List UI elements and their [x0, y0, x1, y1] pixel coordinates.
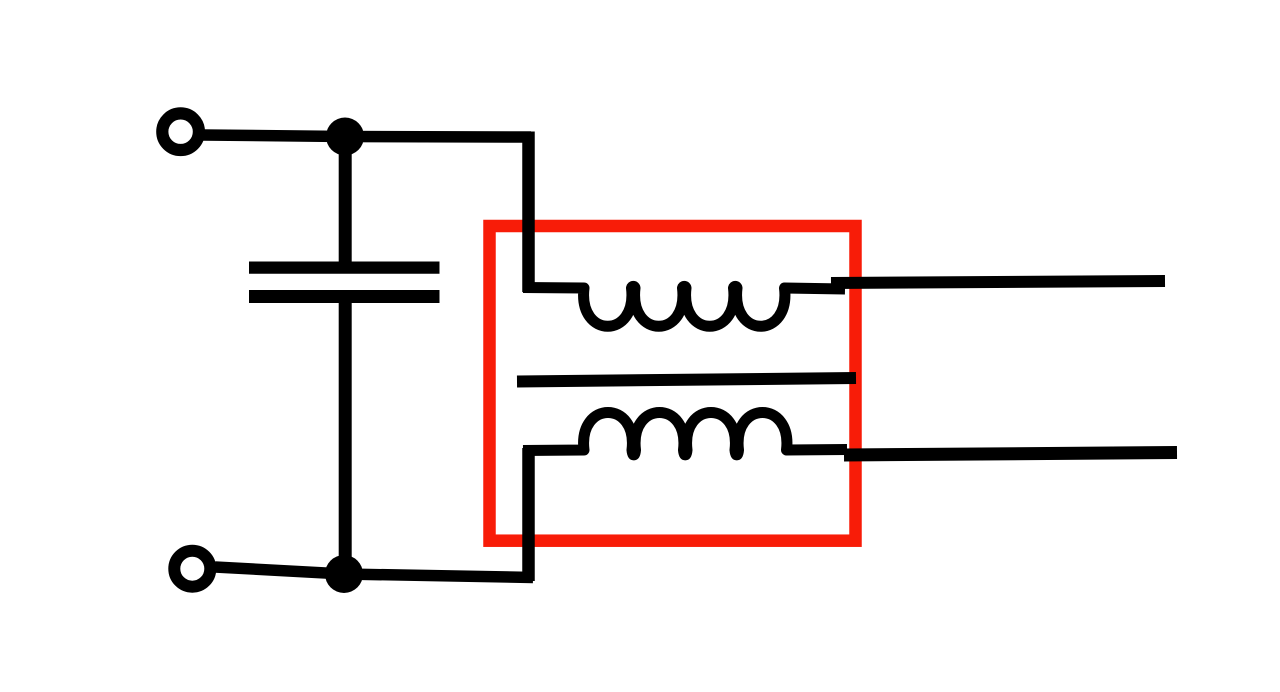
transformer enclosure box (red)	[490, 226, 856, 541]
wire: vertical drop from top wire into transformer primary	[522, 132, 535, 293]
wire: capacitor top lead	[339, 135, 352, 267]
transformer core line	[517, 378, 856, 382]
wire: bottom terminal to corner below transformer	[215, 567, 533, 578]
wire: top terminal to corner above transformer	[203, 135, 531, 137]
capacitor C1 top plate	[249, 262, 440, 274]
node A (top junction dot)	[326, 118, 364, 156]
wire: bottom output line (to the right)	[844, 453, 1177, 456]
node B (bottom junction dot)	[325, 555, 363, 593]
terminal T2 (bottom-left input, open circle)	[174, 551, 210, 587]
wire: capacitor bottom lead	[339, 296, 352, 576]
inductor L2 (transformer bottom winding, loops upward)	[523, 413, 847, 455]
wire: vertical rise from bottom wire into transformer secondary	[522, 448, 535, 581]
wire: top output line (to the right)	[831, 281, 1165, 283]
terminal T1 (top-left input, open circle)	[162, 113, 199, 150]
inductor L1 (transformer top winding, loops downward)	[523, 286, 845, 326]
capacitor C1 bottom plate	[249, 290, 440, 303]
